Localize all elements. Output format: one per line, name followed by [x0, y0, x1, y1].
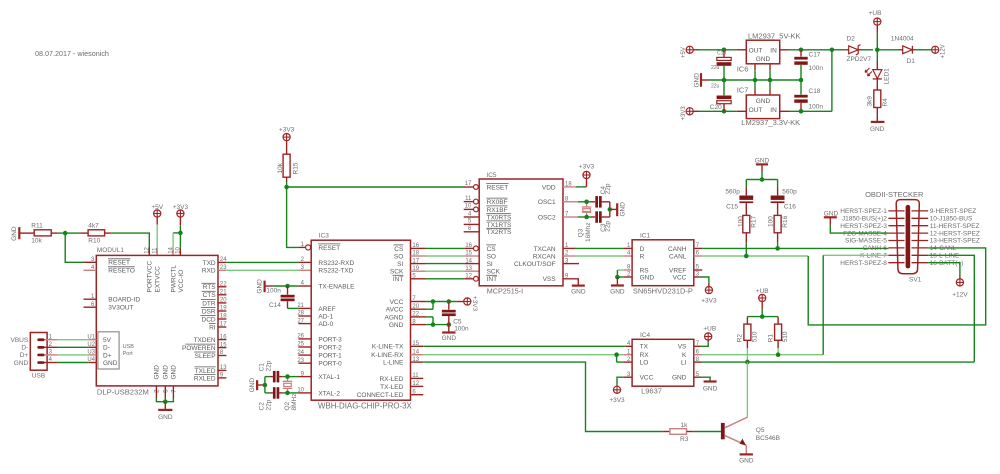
svg-text:CS: CS — [394, 246, 404, 253]
svg-text:IC5: IC5 — [486, 172, 497, 179]
wire CS IC3 to IC5 — [411, 243, 479, 251]
pin 24 TXD stub — [218, 257, 227, 263]
ground GND at IC4 — [703, 382, 718, 393]
svg-text:GND: GND — [163, 365, 170, 380]
svg-text:C19: C19 — [717, 51, 726, 57]
svg-text:IC7: IC7 — [737, 85, 749, 94]
svg-text:DLP-USB232M: DLP-USB232M — [97, 388, 149, 397]
svg-text:K-LINE-TX: K-LINE-TX — [372, 344, 404, 351]
supply +UB at R1 R2 — [756, 288, 769, 302]
wire RESET net to IC5 pin 17 — [287, 185, 479, 190]
pin 4 RESETO stub — [84, 265, 97, 271]
svg-text:IC1: IC1 — [640, 232, 651, 239]
svg-text:22u: 22u — [711, 65, 720, 71]
capacitor C1 22p — [258, 360, 298, 382]
svg-text:SO: SO — [487, 253, 496, 260]
svg-text:U2: U2 — [87, 342, 95, 348]
svg-text:+UB: +UB — [869, 10, 882, 17]
wire AVCC row — [411, 302, 434, 310]
svg-text:Q3: Q3 — [577, 228, 584, 237]
IC3 pin 12 TX-LED stub — [411, 381, 424, 387]
svg-text:C5: C5 — [453, 319, 462, 326]
wire SO IC3 to IC5 — [411, 251, 480, 257]
wire LI line IC4 to SV1 vertical — [694, 357, 975, 363]
IC5 pin 11 RX0BF stub — [464, 196, 479, 204]
svg-text:R10: R10 — [88, 238, 100, 245]
svg-text:GND: GND — [620, 202, 627, 217]
IC5 pin 4 TX0RTS stub — [464, 211, 480, 217]
svg-text:SN65HVD231D-P: SN65HVD231D-P — [633, 286, 693, 295]
svg-text:22u: 22u — [711, 84, 720, 90]
svg-text:560p: 560p — [782, 189, 797, 196]
USB pin numbers — [49, 334, 53, 363]
svg-text:16: 16 — [412, 243, 419, 249]
IC5 pin 3 CLKOUT stub — [563, 258, 579, 264]
LED LED1 — [865, 50, 890, 85]
svg-text:RS232-TXD: RS232-TXD — [318, 268, 353, 275]
wire branch to pin 14 PWRCTL — [173, 233, 180, 256]
svg-text:24: 24 — [297, 350, 304, 356]
svg-text:GND: GND — [442, 335, 457, 342]
svg-text:POWEREN: POWEREN — [182, 345, 216, 352]
svg-text:16: 16 — [220, 334, 227, 340]
svg-text:GND: GND — [756, 98, 771, 105]
svg-text:AREF: AREF — [318, 306, 335, 313]
IC5 pin 5 TX1RTS stub — [464, 219, 480, 225]
supply +3V3 at IC1 — [701, 287, 717, 305]
IC3 pin 11 RX-LED stub — [411, 373, 424, 379]
svg-text:RX1BF: RX1BF — [487, 207, 508, 214]
resistor R3 1k — [662, 422, 693, 443]
svg-text:3V3OUT: 3V3OUT — [108, 305, 133, 312]
node VCC junctions — [431, 299, 451, 327]
svg-text:EXTVCC: EXTVCC — [155, 266, 162, 293]
svg-text:Port: Port — [123, 351, 134, 357]
wire IC1 RS loop to GND — [615, 265, 632, 280]
IC1 pin names — [640, 246, 687, 282]
IC4 left pin numbers — [627, 341, 631, 378]
module IC5 MCP2515-I — [479, 172, 563, 295]
svg-text:AVCC: AVCC — [386, 307, 404, 314]
svg-text:K-LINE-RX: K-LINE-RX — [371, 352, 404, 359]
IC5 right pin names — [514, 184, 556, 283]
wire junction to R10 — [65, 232, 88, 234]
svg-text:SLEEP: SLEEP — [195, 353, 216, 360]
wire R15 to junction — [286, 182, 288, 187]
node rail junctions — [722, 78, 804, 83]
svg-text:D+: D+ — [20, 352, 29, 359]
MODUL1 left pin names — [108, 259, 140, 312]
svg-text:GND: GND — [640, 275, 655, 282]
capacitor C19 22u — [711, 50, 731, 80]
svg-text:22p: 22p — [266, 399, 273, 410]
svg-text:16: 16 — [465, 243, 472, 249]
svg-text:L-LINE: L-LINE — [383, 360, 404, 367]
wire IC1 VCC to +3V3 — [694, 272, 709, 287]
wire RESET net down to IC3 pin 1 — [287, 187, 311, 250]
wire R3 to Q5 base — [693, 431, 721, 433]
svg-text:CANL: CANL — [669, 253, 687, 260]
svg-text:OSC1: OSC1 — [538, 199, 556, 206]
IC1 pin 5 VREF stub — [694, 265, 703, 271]
svg-text:J1850-BUS(+)2: J1850-BUS(+)2 — [842, 216, 887, 223]
svg-text:CANH-6: CANH-6 — [863, 245, 888, 252]
svg-text:VBUS: VBUS — [10, 337, 28, 344]
capacitor C18 100n — [794, 80, 823, 111]
svg-text:INT: INT — [487, 276, 498, 283]
node XTAL junctions — [285, 374, 290, 395]
svg-text:R2: R2 — [737, 334, 744, 343]
svg-text:510: 510 — [751, 331, 758, 342]
svg-text:C15: C15 — [726, 204, 738, 211]
IC5 bus pin numbers — [465, 243, 472, 279]
svg-text:C16: C16 — [784, 204, 796, 211]
svg-text:RS: RS — [640, 267, 650, 274]
svg-text:GND: GND — [257, 279, 264, 294]
svg-text:AD-1: AD-1 — [318, 313, 333, 320]
ground GND at SV1 — [824, 210, 889, 233]
svg-text:15: 15 — [220, 342, 227, 348]
svg-text:IN: IN — [770, 48, 777, 55]
wire K line IC4 to vertical — [694, 349, 823, 355]
wire termination top — [746, 180, 777, 188]
svg-text:D-: D- — [21, 345, 28, 352]
wire CANL start — [694, 251, 808, 257]
node Q3 junctions — [584, 200, 589, 220]
svg-text:100n: 100n — [809, 65, 824, 72]
ground GND below MODUL1 — [158, 402, 173, 421]
svg-text:GND: GND — [755, 157, 770, 164]
ground GND at Q5 — [739, 454, 754, 464]
svg-text:IC3: IC3 — [319, 233, 330, 240]
resistor R1 510 — [767, 317, 789, 348]
connector SV1 body — [865, 190, 924, 284]
svg-text:TX-LED: TX-LED — [380, 384, 403, 391]
node TX-ENABLE junction — [285, 284, 290, 289]
svg-text:CTS: CTS — [203, 292, 217, 299]
svg-text:+3V3: +3V3 — [579, 164, 595, 171]
wire L-LINE IC3 to R3 — [411, 357, 663, 432]
svg-text:RTS: RTS — [203, 284, 217, 291]
capacitor C17 100n — [794, 50, 823, 80]
svg-text:SV1: SV1 — [909, 277, 922, 284]
wire TXD MODUL1 to IC3 — [226, 261, 311, 263]
svg-text:VCC: VCC — [673, 275, 687, 282]
svg-text:R16: R16 — [782, 215, 789, 227]
svg-text:INT: INT — [393, 276, 404, 283]
svg-text:DCD: DCD — [202, 316, 216, 323]
svg-text:LO: LO — [640, 360, 649, 367]
svg-text:HERST-SPEZ-1: HERST-SPEZ-1 — [840, 208, 887, 215]
svg-text:RESETO: RESETO — [108, 268, 135, 275]
node bottom GND junction — [163, 399, 168, 404]
svg-text:11: 11 — [152, 247, 158, 254]
supply +UB at IC4 — [703, 326, 716, 340]
SV1 right pin stubs — [912, 211, 929, 263]
pin 1 BOARD-ID stub — [84, 294, 97, 300]
wire 15-L-LINE down to LI — [928, 255, 974, 362]
diode D2 ZPD2V7 zener — [846, 35, 873, 63]
svg-text:+3V3: +3V3 — [279, 127, 295, 134]
wire K-LINE-TX IC3 to IC4 — [411, 341, 633, 347]
capacitor C3 22p — [595, 211, 611, 232]
wire 16-BATT to +12V — [928, 263, 960, 279]
resistor R4 3k9 — [867, 79, 890, 121]
svg-text:+3V3: +3V3 — [681, 106, 687, 121]
wire cap mid vertical — [264, 377, 266, 393]
svg-text:RESET: RESET — [487, 184, 509, 191]
wire R10 to PORTVCC pin 12 — [105, 233, 150, 255]
svg-text:+12V: +12V — [952, 291, 968, 298]
svg-text:RX0BF: RX0BF — [487, 199, 508, 206]
wire R1 to K line — [776, 348, 781, 357]
MODUL1 top pin numbers rotated — [145, 246, 182, 253]
svg-text:OUT: OUT — [749, 48, 763, 55]
IC3 pin 9 XTAL-1 stub — [298, 371, 311, 377]
svg-text:L9637: L9637 — [641, 387, 662, 396]
svg-text:13-HERST-SPEZ: 13-HERST-SPEZ — [930, 238, 980, 245]
svg-text:8MHz: 8MHz — [291, 394, 298, 411]
svg-text:22: 22 — [412, 312, 419, 318]
svg-text:RS232-RXD: RS232-RXD — [318, 260, 354, 267]
svg-text:HERST-SPEZ-3: HERST-SPEZ-3 — [840, 223, 887, 230]
wire Q5 emitter to GND — [745, 445, 747, 454]
svg-text:22p: 22p — [605, 221, 612, 232]
wire GND row — [411, 319, 449, 325]
svg-text:IC6: IC6 — [737, 65, 749, 74]
svg-text:R4: R4 — [882, 98, 889, 107]
svg-text:VCC: VCC — [640, 375, 654, 382]
svg-text:K: K — [682, 352, 687, 359]
svg-text:TX-ENABLE: TX-ENABLE — [318, 283, 355, 290]
resistor R11 10k — [31, 222, 51, 244]
svg-text:VCC-IO: VCC-IO — [178, 270, 185, 293]
capacitor C14 100n — [266, 286, 294, 309]
IC3 right pin names — [357, 245, 404, 399]
wire +5V to IC6 OUT — [693, 49, 736, 51]
resistor R10 4k7 — [88, 222, 105, 244]
svg-text:17: 17 — [412, 258, 419, 264]
svg-text:12: 12 — [145, 246, 151, 253]
wire R11 to junction — [51, 232, 65, 234]
svg-text:SCK: SCK — [487, 269, 501, 276]
svg-text:GND: GND — [610, 288, 625, 295]
supply +12V at SV1 — [952, 279, 968, 299]
wire VCC row to +3V3 — [411, 296, 464, 302]
wire R16 to CANH — [775, 243, 780, 251]
svg-text:R11: R11 — [31, 222, 43, 229]
pin 23 RXD stub — [218, 265, 227, 271]
svg-text:SI: SI — [397, 261, 403, 268]
svg-text:LI: LI — [681, 360, 687, 367]
svg-text:12: 12 — [465, 274, 472, 280]
svg-text:GND: GND — [171, 365, 178, 380]
svg-text:RXLED: RXLED — [194, 375, 216, 382]
svg-text:BC546B: BC546B — [756, 435, 780, 442]
connector USB — [30, 333, 47, 380]
svg-text:+5V: +5V — [151, 204, 163, 211]
svg-text:VCC: VCC — [390, 299, 404, 306]
svg-text:RI: RI — [209, 324, 216, 331]
wire K-LINE-RX IC3 to IC4 — [411, 349, 633, 355]
svg-text:TX1RTS: TX1RTS — [487, 222, 512, 229]
svg-text:D: D — [640, 246, 645, 253]
svg-text:GND: GND — [154, 365, 161, 380]
svg-text:20: 20 — [412, 304, 419, 310]
svg-text:C18: C18 — [809, 88, 821, 95]
pins 22-17 stubs — [218, 282, 227, 328]
svg-text:VREF: VREF — [669, 267, 686, 274]
wire IC6 GND pins down to rail — [755, 64, 770, 80]
wire CANL detour to 14-CANL — [808, 248, 986, 325]
IC5 pin 6 TX2RTS stub — [464, 226, 480, 232]
supply +3V3 at IC4 — [609, 386, 625, 404]
svg-text:14-CANL: 14-CANL — [930, 245, 957, 252]
ground GND below C5 — [442, 325, 457, 342]
svg-text:LED1: LED1 — [884, 68, 891, 85]
svg-text:13: 13 — [220, 365, 227, 371]
svg-text:13: 13 — [465, 266, 472, 272]
svg-text:IN: IN — [770, 107, 777, 114]
svg-text:13: 13 — [412, 357, 419, 363]
svg-text:1N4004: 1N4004 — [891, 35, 914, 42]
svg-text:GND: GND — [739, 458, 754, 465]
svg-text:DSR: DSR — [202, 308, 216, 315]
svg-text:RXD: RXD — [202, 268, 216, 275]
capacitor C20 22u — [710, 80, 732, 111]
wire IC6 OUT stub — [737, 49, 747, 51]
svg-text:14: 14 — [465, 258, 472, 264]
node R11/R10/RESET junction — [63, 231, 68, 236]
supply +12V right — [932, 44, 947, 58]
svg-text:12-HERST-SPEZ: 12-HERST-SPEZ — [930, 230, 980, 237]
wire IC6 IN to vertical — [780, 49, 832, 51]
node C18 bottom — [799, 109, 804, 114]
svg-text:HERST-SPEZ-8: HERST-SPEZ-8 — [840, 260, 887, 267]
supply +5V (regulator input) — [681, 46, 693, 58]
wire feed to D2 — [832, 49, 846, 51]
capacitor C5 100n — [442, 302, 469, 333]
node termination GND junction — [760, 177, 765, 182]
svg-text:DTR: DTR — [202, 300, 216, 307]
svg-text:PORT-2: PORT-2 — [318, 344, 342, 351]
svg-text:24: 24 — [220, 257, 227, 263]
USB pad 1 — [37, 338, 44, 341]
pins 16 15 8 13 9 stubs — [218, 334, 227, 378]
ground GND under R4 — [870, 122, 885, 133]
IC3 pins 26 25 24 23 PORT stubs — [297, 334, 311, 364]
svg-text:TX2RTS: TX2RTS — [487, 229, 512, 236]
svg-text:+3V3: +3V3 — [471, 296, 478, 312]
capacitor C2 22p — [258, 387, 298, 410]
svg-text:C17: C17 — [809, 51, 821, 58]
svg-text:WBH-DIAG-CHIP-PRO-3X: WBH-DIAG-CHIP-PRO-3X — [318, 402, 413, 411]
wire OSC1 row — [563, 197, 595, 203]
ground GND left of R11 — [11, 226, 19, 241]
svg-text:19: 19 — [412, 266, 419, 272]
IC7 LM2937 3.3V regulator — [737, 85, 800, 127]
svg-text:11: 11 — [465, 196, 472, 202]
supply +3V3 above MODUL1 — [173, 204, 189, 217]
svg-text:+UB: +UB — [756, 288, 769, 295]
svg-text:VSS: VSS — [543, 276, 557, 283]
pin U1 stub — [87, 334, 96, 340]
svg-text:100n: 100n — [454, 326, 469, 333]
wire D+ to U3 — [45, 354, 89, 356]
svg-text:+3V3: +3V3 — [701, 298, 717, 305]
svg-text:SIG-MASSE-5: SIG-MASSE-5 — [845, 238, 887, 245]
svg-text:XTAL-1: XTAL-1 — [318, 374, 340, 381]
svg-text:GND: GND — [389, 322, 404, 329]
svg-text:GND: GND — [11, 226, 18, 241]
svg-text:R17: R17 — [751, 215, 758, 227]
wire K line to SV1 pin 7 — [823, 255, 888, 354]
wire GND to R11 — [19, 232, 34, 234]
IC3 pin 27 AD-0 stub — [297, 318, 311, 324]
svg-text:23: 23 — [297, 358, 304, 364]
svg-text:10: 10 — [176, 246, 182, 253]
svg-text:C14: C14 — [269, 302, 281, 309]
svg-text:GND: GND — [249, 378, 256, 393]
MODUL1 right pin names — [182, 260, 216, 383]
node IC4 RX junction and LO loop — [614, 352, 632, 362]
module MODUL1 DLP-USB232M — [96, 247, 218, 397]
svg-text:PORTVCC: PORTVCC — [147, 261, 154, 293]
svg-text:CLKOUT/SOF: CLKOUT/SOF — [514, 261, 556, 268]
svg-text:4k7: 4k7 — [88, 222, 99, 229]
svg-text:10: 10 — [465, 204, 472, 210]
wire R17 to CANL — [744, 243, 749, 258]
supply +UB top — [869, 10, 882, 25]
svg-text:+3V3: +3V3 — [173, 204, 189, 211]
pin U2 stub — [87, 342, 96, 348]
svg-text:SO: SO — [394, 253, 403, 260]
svg-text:C2: C2 — [258, 402, 265, 411]
svg-text:GND: GND — [14, 360, 29, 367]
svg-text:GND: GND — [103, 360, 118, 367]
svg-text:23: 23 — [220, 265, 227, 271]
svg-text:17: 17 — [465, 181, 472, 187]
svg-text:OBDII-STECKER: OBDII-STECKER — [865, 190, 924, 199]
svg-text:21: 21 — [220, 290, 227, 296]
capacitor C16 560p — [771, 187, 797, 210]
svg-text:+3V3: +3V3 — [609, 397, 625, 404]
USB pin labels — [10, 337, 28, 367]
module IC3 WBH-DIAG-CHIP-PRO-3X — [311, 233, 412, 411]
svg-text:PORT-0: PORT-0 — [318, 361, 342, 368]
svg-text:16Mhz: 16Mhz — [585, 222, 592, 242]
capacitor C15 560p — [725, 187, 753, 210]
SV1 right labels — [930, 208, 980, 267]
svg-text:10-J1850-BUS: 10-J1850-BUS — [930, 216, 973, 223]
wire vertical input feed — [831, 50, 833, 112]
svg-text:CONNECT-LED: CONNECT-LED — [357, 392, 404, 399]
svg-text:VDD: VDD — [542, 184, 556, 191]
svg-text:TXD: TXD — [203, 260, 216, 267]
svg-text:25: 25 — [297, 342, 304, 348]
svg-text:18: 18 — [565, 182, 572, 188]
SV1 left pin stubs — [888, 211, 904, 263]
wire D- to U2 — [45, 346, 89, 348]
wire VBUS to U1 — [45, 339, 89, 341]
svg-text:RX-LED: RX-LED — [379, 376, 403, 383]
IC5 pin 10 RX1BF stub — [464, 204, 479, 212]
svg-text:18: 18 — [412, 251, 419, 257]
MODUL1 bottom GND pin names rotated — [154, 365, 178, 380]
wire +UB down to junction — [876, 25, 878, 50]
resistor R16 100 — [767, 203, 789, 243]
svg-text:14: 14 — [412, 349, 419, 355]
